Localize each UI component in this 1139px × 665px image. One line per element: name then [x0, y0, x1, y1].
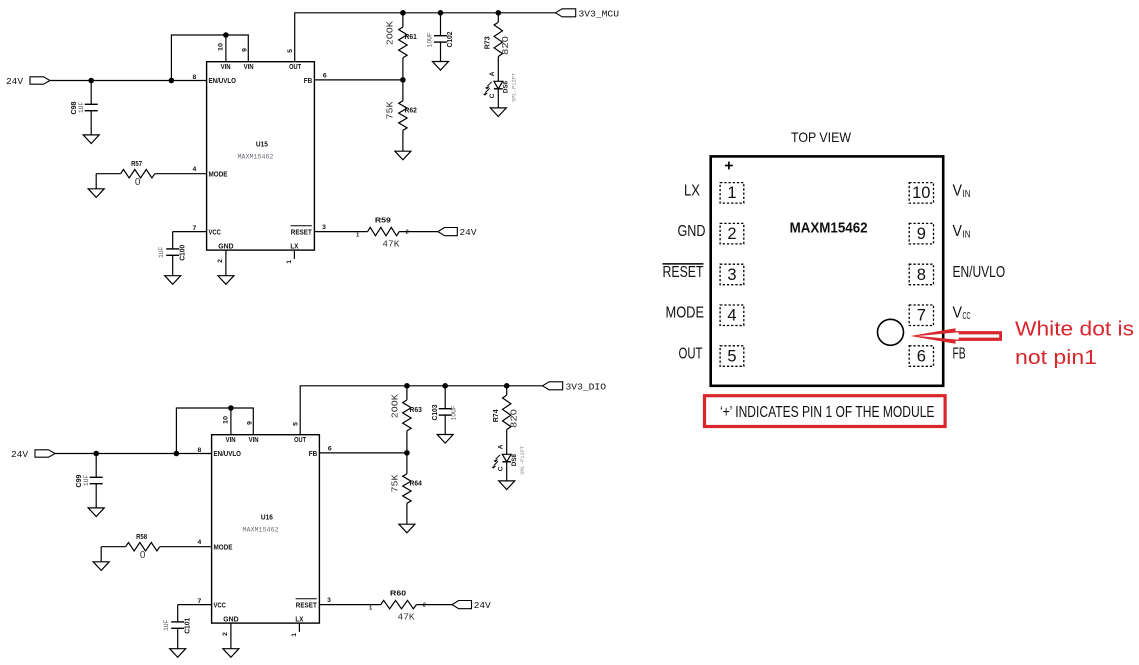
capacitor C102 10UF output [426, 13, 454, 62]
pin 7 name VCC [953, 305, 971, 323]
svg-text:8: 8 [917, 266, 926, 284]
svg-text:24V: 24V [6, 76, 23, 87]
svg-text:U16: U16 [261, 513, 273, 522]
svg-text:VCC: VCC [209, 227, 222, 236]
svg-text:2: 2 [727, 225, 736, 243]
LX pin 1 stub (unconnected) [291, 623, 299, 637]
svg-text:A: A [489, 71, 496, 76]
svg-text:6: 6 [323, 72, 327, 79]
junction node above pin 10 [228, 405, 234, 411]
ground below GND pin [223, 649, 239, 658]
svg-text:2: 2 [217, 259, 224, 263]
op-amp U-block regulator U15 MAXM15462 [207, 62, 315, 251]
wire GND pin 2 to ground [217, 250, 226, 276]
white dot (not pin 1) on package [878, 319, 904, 345]
svg-text:6: 6 [917, 347, 926, 365]
pin 1 indicator plus mark [725, 162, 733, 170]
ground below DS6 [490, 108, 506, 117]
svg-text:A: A [498, 444, 505, 449]
red annotation arrow pointing at white dot [911, 328, 1003, 343]
resistor R60 47K on RESET pin 3 [319, 589, 452, 623]
svg-text:7: 7 [198, 598, 202, 605]
capacitor C98 1UF input bypass [69, 81, 98, 135]
wire GND pin 2 to ground [222, 623, 231, 649]
wire FB pin 6 to feedback divider [319, 452, 407, 454]
svg-text:CC: CC [963, 310, 971, 322]
svg-text:82O: 82O [500, 36, 511, 55]
power flag 24V at R59 [438, 227, 477, 238]
junction node at VIN loop [174, 451, 180, 457]
svg-text:DS6: DS6 [503, 81, 510, 93]
svg-text:8: 8 [198, 447, 202, 454]
pin 10 pad square [909, 183, 933, 204]
pin 9 pad square [909, 223, 933, 244]
svg-text:White dot is: White dot is [1015, 318, 1134, 340]
ground below C103 [437, 435, 453, 444]
svg-text:not pin1: not pin1 [1015, 347, 1097, 369]
svg-text:FB: FB [953, 346, 966, 363]
svg-text:0: 0 [135, 177, 141, 188]
svg-text:4: 4 [727, 307, 736, 325]
svg-text:SML-P12PT: SML-P12PT [512, 73, 518, 102]
svg-text:5: 5 [727, 347, 736, 365]
resistor R58 0 ohm on MODE pin 4 [101, 532, 211, 562]
svg-text:3V3_DIO: 3V3_DIO [566, 381, 607, 392]
svg-text:10: 10 [218, 43, 225, 51]
svg-text:C102: C102 [445, 32, 454, 48]
junction node at C99 [93, 451, 99, 457]
svg-text:R63: R63 [410, 405, 422, 414]
svg-text:3: 3 [727, 266, 736, 284]
svg-text:4: 4 [193, 166, 197, 173]
svg-text:C98: C98 [69, 101, 78, 114]
resistor R63 200K feedback upper [390, 386, 422, 453]
svg-text:R60: R60 [390, 589, 406, 598]
svg-text:R61: R61 [405, 32, 417, 41]
svg-text:5: 5 [292, 422, 299, 426]
svg-text:2OOK: 2OOK [390, 394, 401, 418]
power input flag 24V (U15 circuit) [6, 76, 50, 87]
svg-text:82O: 82O [509, 409, 520, 428]
svg-text:24V: 24V [11, 449, 28, 460]
resistor R57 0 ohm on MODE pin 4 [96, 159, 206, 189]
wire 24V input to EN/UVLO pin 8 [50, 80, 207, 82]
svg-text:VIN: VIN [244, 62, 254, 71]
pin 9 name VIN [953, 223, 971, 241]
svg-text:OUT: OUT [294, 435, 306, 444]
svg-text:47K: 47K [382, 238, 399, 249]
svg-text:IN: IN [963, 229, 971, 241]
svg-text:10: 10 [223, 416, 230, 424]
junction node rail/R73 [496, 10, 502, 16]
junction node rail/R74 [504, 383, 510, 389]
svg-text:MODE: MODE [214, 542, 233, 551]
svg-text:1: 1 [291, 633, 298, 637]
LED DS6 SML-P12PT [484, 71, 518, 108]
svg-text:1OUF: 1OUF [451, 405, 458, 420]
svg-text:24V: 24V [460, 227, 477, 238]
capacitor C103 10UF output [430, 386, 458, 435]
svg-text:EN/UVLO: EN/UVLO [953, 264, 1006, 281]
red annotation text White dot is not pin1 [1015, 318, 1134, 369]
output net flag 3V3_DIO [543, 381, 607, 392]
svg-text:R62: R62 [405, 105, 417, 114]
svg-text:1UF: 1UF [83, 475, 90, 487]
svg-text:SML-P12PT: SML-P12PT [520, 446, 526, 475]
junction node at C98 [88, 78, 94, 84]
svg-text:1: 1 [369, 606, 372, 612]
svg-text:2OOK: 2OOK [385, 21, 396, 45]
red note box: + indicates pin 1 of the module [705, 396, 946, 427]
svg-text:RESET: RESET [291, 227, 312, 236]
pin 7 pad square [909, 305, 933, 326]
svg-text:10: 10 [912, 184, 930, 202]
LED DS8 SML-P12PT [492, 444, 526, 481]
svg-text:3: 3 [322, 224, 326, 231]
svg-text:VCC: VCC [214, 600, 227, 609]
svg-text:R58: R58 [136, 532, 147, 541]
junction node FB divider [404, 450, 410, 456]
svg-text:1OUF: 1OUF [426, 32, 433, 47]
svg-text:LX: LX [295, 615, 303, 624]
svg-text:2: 2 [222, 632, 229, 636]
op-amp U-block regulator U16 MAXM15462 [212, 435, 320, 624]
junction node above pin 10 [223, 32, 229, 38]
svg-text:6: 6 [328, 445, 332, 452]
wire OUT pin 5 to output rail [300, 386, 542, 435]
package outline MAXM15462 top view [711, 156, 944, 385]
svg-text:3V3_MCU: 3V3_MCU [579, 8, 620, 19]
svg-text:VIN: VIN [221, 62, 231, 71]
pin 6 pad square [909, 346, 933, 367]
ground left of R57 [88, 189, 104, 198]
svg-text:IN: IN [963, 188, 971, 200]
wire EN/UVLO node up to VIN pins 10 and 9 [171, 35, 248, 81]
svg-text:VIN: VIN [249, 435, 259, 444]
svg-text:MAXM15462: MAXM15462 [790, 219, 868, 236]
junction node FB divider [400, 77, 406, 83]
svg-text:C103: C103 [430, 405, 439, 421]
svg-text:5: 5 [287, 49, 294, 53]
svg-text:DS8: DS8 [511, 454, 518, 466]
svg-text:C100: C100 [178, 245, 187, 261]
junction node rail/R61 [400, 10, 406, 16]
svg-text:1UF: 1UF [163, 619, 170, 631]
svg-text:FB: FB [309, 449, 318, 458]
resistor R64 75K feedback lower [390, 453, 422, 524]
svg-text:C101: C101 [183, 618, 192, 634]
pin 4 pad square [720, 305, 744, 326]
svg-text:‘+’ INDICATES PIN 1 OF THE MOD: ‘+’ INDICATES PIN 1 OF THE MODULE [720, 404, 935, 421]
pin 3 pad square [720, 264, 744, 285]
junction node rail/output cap [438, 10, 444, 16]
svg-text:75K: 75K [385, 101, 396, 119]
svg-text:C: C [498, 466, 505, 471]
capacitor C101 1UF on VCC pin 7 [163, 598, 212, 649]
svg-text:GND: GND [678, 223, 706, 240]
resistor R62 75K feedback lower [385, 80, 417, 151]
svg-text:FB: FB [304, 76, 313, 85]
svg-text:V: V [953, 182, 963, 199]
svg-text:2: 2 [423, 602, 426, 608]
pin 8 pad square [909, 264, 933, 285]
svg-text:VIN: VIN [226, 435, 236, 444]
ground below DS8 [499, 481, 515, 490]
wire OUT pin 5 to output rail [295, 13, 556, 62]
svg-text:R74: R74 [491, 409, 500, 422]
ground below C102 [433, 62, 449, 71]
svg-text:1: 1 [356, 233, 359, 239]
svg-text:RESET: RESET [296, 600, 317, 609]
svg-text:4: 4 [198, 539, 202, 546]
junction node rail/output cap [442, 383, 448, 389]
svg-text:3: 3 [327, 597, 331, 604]
pin 10 name VIN [953, 182, 971, 200]
output net flag 3V3_MCU [556, 8, 620, 19]
svg-text:OUT: OUT [289, 62, 301, 71]
svg-text:RESET: RESET [663, 264, 704, 281]
svg-text:R57: R57 [131, 159, 142, 168]
wire EN/UVLO node up to VIN pins 10 and 9 [176, 408, 253, 454]
svg-text:9: 9 [917, 225, 926, 243]
svg-text:V: V [953, 305, 963, 322]
svg-text:7: 7 [193, 225, 197, 232]
svg-text:MAXM15462: MAXM15462 [238, 154, 274, 162]
svg-text:EN/UVLO: EN/UVLO [214, 449, 242, 458]
svg-text:75K: 75K [390, 474, 401, 492]
ground below C100 [165, 276, 181, 285]
svg-text:9: 9 [241, 48, 248, 52]
ground below GND pin [218, 276, 234, 285]
svg-text:GND: GND [223, 615, 239, 624]
svg-text:C99: C99 [74, 474, 83, 487]
svg-text:EN/UVLO: EN/UVLO [209, 76, 237, 85]
resistor R74 820 LED series [491, 386, 519, 455]
svg-text:OUT: OUT [679, 346, 703, 363]
capacitor C99 1UF input bypass [74, 454, 103, 508]
junction node at VIN loop [169, 78, 175, 84]
svg-text:0: 0 [140, 550, 146, 561]
svg-text:R73: R73 [483, 36, 492, 49]
svg-text:MODE: MODE [209, 169, 228, 178]
svg-text:R64: R64 [410, 478, 422, 487]
svg-text:2: 2 [406, 229, 409, 235]
junction node rail/R63 [404, 383, 410, 389]
pin 5 pad square [720, 346, 744, 367]
power flag 24V at R60 [452, 600, 491, 611]
svg-text:TOP VIEW: TOP VIEW [791, 129, 852, 145]
wire 24V input to EN/UVLO pin 8 [55, 453, 212, 455]
svg-text:MAXM15462: MAXM15462 [243, 527, 279, 535]
svg-text:GND: GND [218, 242, 234, 251]
svg-text:1UF: 1UF [158, 246, 165, 258]
ground below R62 [395, 151, 411, 160]
resistor R61 200K feedback upper [385, 13, 417, 80]
ground left of R58 [93, 562, 109, 571]
ground below C99 [88, 508, 104, 517]
svg-text:MODE: MODE [666, 305, 705, 322]
ground below R64 [399, 524, 415, 533]
power input flag 24V (U16 circuit) [11, 449, 55, 460]
resistor R73 820 LED series [483, 13, 511, 82]
svg-text:V: V [953, 223, 963, 240]
svg-text:U15: U15 [256, 140, 268, 149]
resistor R59 47K on RESET pin 3 [314, 216, 438, 250]
LX pin 1 stub (unconnected) [286, 250, 294, 264]
svg-text:8: 8 [193, 74, 197, 81]
capacitor C100 1UF on VCC pin 7 [158, 225, 207, 276]
pin 1 pad square [720, 183, 744, 204]
ground below C101 [170, 649, 186, 658]
svg-text:LX: LX [684, 182, 700, 199]
svg-text:24V: 24V [474, 600, 491, 611]
ground below C98 [83, 135, 99, 144]
svg-text:R59: R59 [375, 216, 391, 225]
svg-text:1: 1 [727, 184, 736, 202]
pin 3 name RESET with overline [663, 264, 704, 281]
wire FB pin 6 to feedback divider [314, 79, 403, 81]
svg-text:1UF: 1UF [78, 102, 85, 114]
svg-text:1: 1 [286, 260, 293, 264]
svg-text:47K: 47K [398, 611, 415, 622]
pin 2 pad square [720, 223, 744, 244]
svg-text:LX: LX [290, 242, 298, 251]
svg-text:C: C [489, 93, 496, 98]
svg-text:7: 7 [917, 307, 926, 325]
svg-text:9: 9 [246, 421, 253, 425]
